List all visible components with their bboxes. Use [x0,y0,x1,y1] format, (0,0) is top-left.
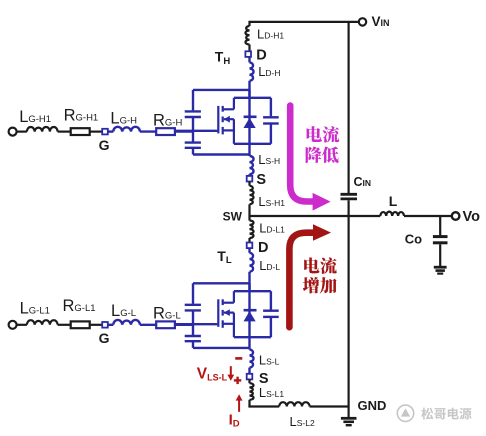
wire LD-H to cell [248,81,250,98]
resistor RG-L [156,321,175,328]
high-side capacitor Cgs [185,143,201,148]
inductor L [380,212,404,216]
svg-text:VLS-L: VLS-L [197,365,228,382]
high-side bottom rail wire [193,153,250,155]
wire VIN top rail [250,21,359,23]
pin D high-side [245,51,251,57]
label SW [223,209,243,223]
wire LG-L to RG-L [140,324,156,326]
label TH [215,49,231,67]
label L [389,193,398,209]
low-side gate bus wire middle [192,310,194,335]
svg-text:RG-L: RG-L [153,305,181,323]
watermark logo [397,405,413,421]
inductor LS-H1 [250,186,254,205]
wire LG-L1 to RG-L1 [58,324,71,326]
label G low-side [99,330,110,346]
svg-text:LD-H: LD-H [258,64,280,79]
label S high-side [256,172,266,188]
svg-text:LD-L1: LD-L1 [259,220,285,235]
high-side MOSFET body arrow [224,116,234,123]
wire RG-H1 to G pin [90,131,103,133]
wire SW to output [250,215,381,217]
pin G L [102,322,108,328]
svg-text:LS-L2: LS-L2 [290,414,315,429]
wire CIN rail lower [348,200,350,417]
low-side drain spine wire [248,283,250,291]
inductor LD-L1 [250,221,254,239]
svg-text:LS-H: LS-H [258,152,280,167]
high-side gate wire [175,130,217,132]
svg-text:LG-H: LG-H [110,109,137,127]
wire LS-H1 to SW [248,204,250,216]
label LG-L [111,302,136,320]
inductor LG-L [113,320,140,325]
wire S pin to LS-H1 [248,182,250,186]
label GND [358,398,387,413]
ground GND symbol [341,418,357,425]
svg-text:G: G [99,137,110,153]
svg-text:LG-L: LG-L [111,302,136,320]
wire LD-L to cell [248,272,250,292]
label LS-L2 [290,414,315,429]
node gate input terminal L [9,321,17,329]
label RG-H [153,111,182,129]
wire cell to LS-L [248,348,250,350]
svg-text:G: G [99,330,110,346]
low-side body-diode box [234,291,271,337]
wire LS-L1 to bottom [248,400,279,407]
pin S high-side [247,176,253,182]
low-side MOSFET channel [222,299,224,328]
inductor LD-L [250,253,254,272]
wire Co branch [439,216,441,236]
wire VIN corner to LD-H1 [248,21,250,26]
svg-text:TL: TL [217,248,232,266]
label LD-L1 [259,220,285,235]
svg-text:SW: SW [223,209,243,223]
svg-text:D: D [258,240,268,256]
svg-text:CIN: CIN [354,175,372,189]
wire LG-H1 to RG-H1 [58,131,71,133]
node gate input terminal H [9,128,17,136]
wire LD-L1 to D pin [248,238,250,243]
wire G pin to LG-H [108,130,114,132]
low-side gate bus wire upper [192,283,194,304]
low-side source spine wire [248,337,250,348]
wire RG-L to gate [175,324,193,326]
label LS-H [258,152,280,167]
label Vo [463,209,481,225]
high-side body-diode box [234,98,271,144]
low-side bottom rail wire [193,347,250,349]
svg-text:TH: TH [215,49,231,67]
low-side MOSFET gate bar [217,299,219,327]
label G high-side [99,137,110,153]
svg-text:LG-H1: LG-H1 [19,108,51,126]
arrow current-increase [289,224,331,327]
low-side gate wire [175,323,217,325]
pin D low-side [247,243,253,249]
high-side MOSFET drain lead [223,98,234,110]
resistor RG-L1 [71,321,90,328]
label LD-H1 [257,27,284,42]
pin S low-side [247,374,253,380]
arrow ID current [236,394,243,412]
wire CIN rail upper [348,22,350,193]
high-side capacitor Cds [263,98,279,144]
arrow current-decrease [290,106,330,211]
label LS-H1 [258,194,285,209]
wire LG-H to RG-H [140,130,156,132]
svg-text:Vo: Vo [463,209,481,225]
inductor LG-L1 [27,320,58,325]
svg-text:LS-L: LS-L [259,353,280,368]
svg-text:LS-L1: LS-L1 [259,385,284,400]
high-side body diode [244,98,257,144]
label plus sign [234,377,241,384]
label Co [405,232,422,247]
wire SW to LD-L1 [248,216,250,221]
inductor LD-H1 [245,26,249,45]
label LG-L1 [20,299,50,317]
inductor LG-H [113,127,140,132]
watermark text [421,408,471,420]
svg-text:L: L [389,193,398,209]
label RG-H1 [64,107,99,125]
wire S pin to LS-L1 [248,379,250,383]
label LD-L [259,258,280,273]
label LG-H1 [19,108,51,126]
label D low-side [258,240,268,256]
label minus sign [235,357,242,360]
inductor LS-L1 [250,383,254,400]
resistor RG-H1 [71,128,90,135]
high-side drain spine wire [248,90,250,98]
high-side top rail wire [193,89,250,91]
inductor LD-H [250,62,254,80]
wire input to LG-L1 [17,324,27,326]
svg-text:ID: ID [229,411,240,429]
svg-text:LG-L1: LG-L1 [20,299,50,317]
label CIN [354,175,372,189]
capacitor CIN [341,194,358,199]
wire D pin to LD-L [248,248,250,253]
low-side MOSFET body arrow [224,309,234,316]
label S low-side [259,371,269,387]
low-side capacitor Cgs [185,336,201,341]
resistor RG-H [156,128,175,135]
low-side body diode [244,291,257,337]
wire D pin to LD-H [248,57,250,62]
wire RG-L1 to G pin [90,324,103,326]
label LS-L1 [259,385,284,400]
wire Co to ground [439,244,441,266]
high-side capacitor Cgd [185,111,201,117]
high-side gate bus wire lower [192,148,194,155]
ground output ground symbol [434,267,447,273]
wire cell to LS-H [248,155,250,157]
wire LD-H1 to D pin [248,45,250,52]
svg-text:VIN: VIN [372,14,390,29]
low-side MOSFET drain lead [223,291,234,303]
pin G H [102,129,108,135]
label LD-H [258,64,280,79]
svg-text:RG-H: RG-H [153,111,182,129]
svg-text:Co: Co [405,232,422,247]
label VIN [372,14,390,29]
wire L to Vo [404,215,452,217]
low-side gate bus wire lower [192,341,194,348]
label RG-L1 [63,297,96,315]
wire LS-L to S pin [248,368,250,374]
capacitor Co [433,237,448,243]
label current-increase text [303,257,337,293]
low-side capacitor Cds [263,291,279,337]
svg-text:RG-L1: RG-L1 [63,297,96,315]
high-side MOSFET source lead [223,119,234,144]
high-side MOSFET channel [222,106,224,134]
low-side top rail wire [193,282,250,284]
node VIN terminal [359,18,366,25]
wire LS-H to S pin [248,174,250,176]
svg-text:LS-H1: LS-H1 [258,194,285,209]
wire RG-H to gate [175,130,193,132]
wire LS-L2 to GND [310,405,349,407]
inductor LG-H1 [27,127,58,132]
high-side MOSFET gate bar [217,106,219,133]
label LG-H [110,109,137,127]
label LS-L [259,353,280,368]
label current-decrease text [306,126,340,163]
label ID [229,411,240,429]
low-side capacitor Cgd [185,305,201,311]
high-side gate bus wire middle [192,117,194,142]
arrow VLS-L polarity [227,366,234,381]
low-side MOSFET source lead [223,313,234,338]
high-side gate bus wire upper [192,90,194,111]
svg-text:LD-L: LD-L [259,258,280,273]
label TL [217,248,232,266]
svg-text:LD-H1: LD-H1 [257,27,284,42]
label D high-side [256,47,266,63]
wire G pin to LG-L [108,324,114,326]
svg-text:S: S [256,172,266,188]
label VLS-L [197,365,228,382]
high-side source spine wire [248,144,250,155]
wire input to LG-H1 [17,131,27,133]
node Vo terminal [452,212,460,220]
svg-text:RG-H1: RG-H1 [64,107,99,125]
label RG-L [153,305,181,323]
inductor LS-H [250,156,254,174]
svg-text:D: D [256,47,266,63]
svg-text:GND: GND [358,398,387,413]
inductor LS-L2 [279,402,309,406]
inductor LS-L [250,350,254,368]
